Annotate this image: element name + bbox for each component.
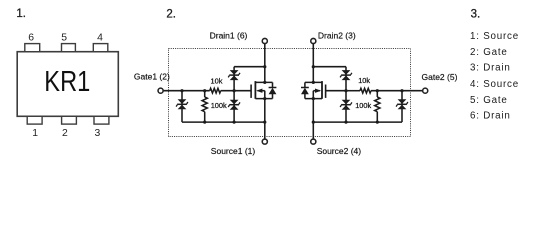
terminal Gate2 pin 5 (423, 88, 428, 93)
junction dot drain2 branch (312, 65, 315, 68)
svg-text:Gate1 (2): Gate1 (2) (134, 72, 170, 82)
svg-text:5: 5 (61, 33, 67, 44)
svg-text:4: 4 (97, 33, 103, 44)
junction dot gate1/D1 (180, 89, 183, 92)
svg-text:Gate2 (5): Gate2 (5) (422, 72, 458, 82)
wire gate1 to Q1 gate (221, 90, 251, 92)
pin 5 lead tab (62, 44, 76, 52)
junction dot rail2/source2 (312, 121, 315, 124)
wire zener D5 vertical (gate-source clamp) (345, 91, 347, 122)
resistor R2 100k gate1-source1 (202, 97, 207, 112)
wire zener D3 vertical (gate-source clamp) (233, 91, 235, 122)
zener D3 bidirectional gate1-source1 (228, 100, 240, 110)
svg-text:KR1: KR1 (44, 66, 90, 98)
svg-text:2: 2 (62, 128, 68, 139)
svg-text:2: Gate: 2: Gate (470, 47, 508, 58)
wire resistor R4 bottom stub (376, 112, 378, 122)
svg-text:Source1 (1): Source1 (1) (211, 146, 256, 156)
zener D2 bidirectional gate1-drain1 (228, 70, 240, 80)
wire source1 rail (182, 121, 265, 123)
wire gate2 input segment (371, 90, 422, 92)
svg-text:10k: 10k (211, 77, 223, 86)
zener D6 bidirectional gate2-source2 (396, 99, 408, 109)
dashed schematic boundary box (169, 49, 411, 137)
junction dot drain1 branch (263, 65, 266, 68)
junction dot gate2/D4 D5 (344, 89, 347, 92)
wire drain1 branch to D2 (234, 66, 265, 68)
wire zener D4 vertical (gate-drain clamp) (345, 67, 347, 91)
junction dot rail1/D3 (233, 121, 236, 124)
wire source1 vertical (264, 99, 266, 139)
resistor R3 10k (series gate2) (360, 88, 371, 93)
svg-text:Source2 (4): Source2 (4) (317, 146, 362, 156)
wire Q2 gate lead (326, 90, 346, 92)
svg-text:5: Gate: 5: Gate (470, 95, 508, 106)
wire gate2 segment (346, 90, 360, 92)
junction dot rail2/D5 (344, 121, 347, 124)
svg-text:3: 3 (95, 128, 101, 139)
svg-text:Drain2 (3): Drain2 (3) (318, 30, 356, 40)
wire zener D6 vertical (401, 91, 403, 122)
pin 4 lead tab (93, 44, 108, 52)
svg-text:1: 1 (32, 128, 38, 139)
junction dot gate1/R2 (203, 89, 206, 92)
junction dot gate2/D6 (400, 89, 403, 92)
terminal Source2 pin 4 (311, 139, 316, 144)
svg-text:4: Source: 4: Source (470, 79, 519, 90)
wire gate1 input segment (164, 90, 210, 92)
terminal Gate1 pin 2 (158, 88, 163, 93)
wire zener D1 vertical (181, 91, 183, 122)
svg-text:Drain1 (6): Drain1 (6) (210, 30, 248, 40)
svg-text:10k: 10k (358, 76, 370, 85)
zener D4 bidirectional gate2-drain2 (340, 70, 352, 80)
wire drain1 vertical (264, 44, 266, 82)
pin 1 lead tab (27, 116, 42, 124)
junction dot rail1/source1 (263, 121, 266, 124)
junction dot gate2/R4 (376, 89, 379, 92)
wire source2 rail (313, 121, 402, 123)
svg-text:6: Drain: 6: Drain (470, 111, 511, 122)
transistor Q1 N-MOSFET (251, 81, 276, 100)
zener D1 bidirectional gate1-source1 (176, 99, 188, 109)
wire resistor R2 bottom stub (204, 112, 206, 122)
terminal Source1 pin 1 (262, 139, 267, 144)
resistor R1 10k (series gate1) (210, 88, 221, 93)
svg-text:2.: 2. (166, 8, 176, 20)
svg-text:3: Drain: 3: Drain (470, 63, 511, 74)
pin 2 lead tab (62, 116, 77, 124)
wire drain2 branch to D4 (313, 66, 346, 68)
svg-text:1.: 1. (16, 8, 26, 20)
junction dot gate1/D2 D3 (233, 89, 236, 92)
terminal Drain2 pin 3 (311, 38, 316, 43)
wire source2 vertical (312, 99, 314, 139)
svg-text:100k: 100k (355, 101, 371, 110)
svg-text:6: 6 (28, 33, 34, 44)
svg-text:100k: 100k (211, 101, 227, 110)
terminal Drain1 pin 6 (262, 38, 267, 43)
svg-text:1: Source: 1: Source (470, 31, 519, 42)
wire resistor R4 vertical top stub (376, 91, 378, 97)
wire zener D2 vertical (gate-drain clamp) (233, 67, 235, 91)
zener D5 bidirectional gate2-source2 (340, 100, 352, 110)
transistor Q2 N-MOSFET (301, 81, 326, 100)
svg-text:3.: 3. (471, 9, 481, 21)
pin 3 lead tab (94, 116, 109, 124)
junction dot rail1/R2 (203, 121, 206, 124)
wire resistor R2 vertical top stub (204, 91, 206, 97)
resistor R4 100k gate2-source2 (375, 97, 380, 112)
junction dot rail2/R4 (376, 121, 379, 124)
pin 6 lead tab (25, 44, 40, 52)
package body outline (17, 52, 118, 117)
wire drain2 vertical (312, 44, 314, 82)
